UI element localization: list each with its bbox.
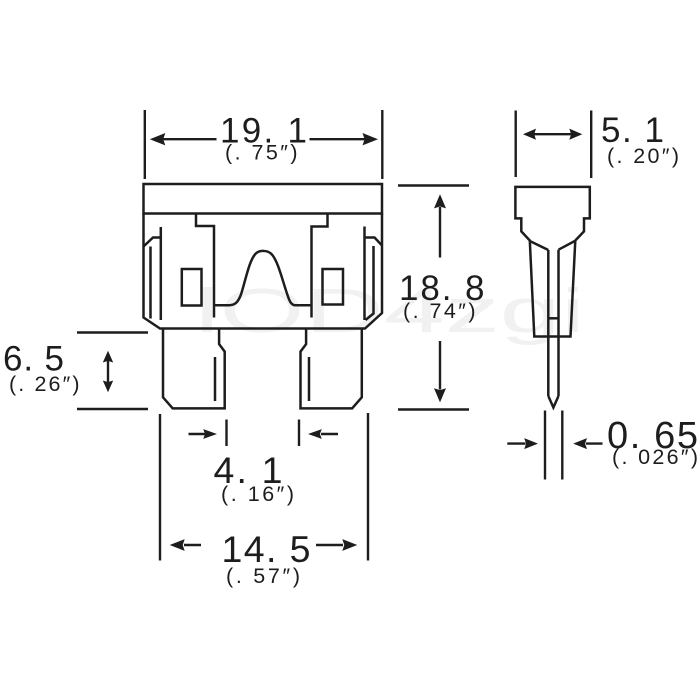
dim 18.8 down arrow shaft [439,341,441,390]
svg-text:(. 75″): (. 75″) [225,141,298,165]
fuse front view: right leg inner line [308,357,311,401]
dim 6.5 up arrowhead [103,351,113,363]
svg-text:(. 026″): (. 026″) [612,445,698,469]
dim 0.65 left-pointing arrowhead [573,438,587,449]
dim 0.65 right arrow shaft [586,442,603,444]
dim 0.65 right extension line [561,411,563,480]
side view: housing outline [515,187,589,337]
dim 4.1 left-pointing arrowhead [308,429,322,439]
fuse front view: right ear chamfer [365,238,383,246]
fuse front view: top cap [144,184,383,214]
dim 5.1 arrow shaft [534,133,571,135]
fuse front view: left ear inner slot line [149,247,152,319]
dim 6.5 down arrowhead [103,381,113,393]
dim 18.8 bottom extension line [398,408,469,410]
side view: blade right edge [557,250,560,396]
fuse front view: body outline [144,214,383,329]
dim 18.8 up arrow shaft [439,207,441,258]
dim 6.5 bottom extension line [77,408,148,410]
fuse front view: left leg inner line [214,357,217,401]
dim 6.5 arrow shaft [107,359,109,384]
side view: left funnel line [530,241,548,250]
dim 14.5 right extension line [367,413,369,561]
fuse front view: left ear chamfer [144,238,162,247]
dim 4.1 left arrow shaft [189,433,206,435]
svg-text:(. 26″): (. 26″) [9,372,80,396]
fuse element bell curve [214,251,312,305]
dim 19.1 left arrowhead [150,133,166,145]
dim 4.1 right-pointing arrowhead [203,429,217,439]
fuse front view: right window hole [323,269,344,305]
dim 19.1 right extension line [381,110,383,179]
side view: blade tick mark [548,317,558,320]
svg-text:(. 16″): (. 16″) [221,482,294,506]
dim 6.5 top extension line [77,331,148,333]
side view: right funnel line [559,241,575,250]
fuse front view: right blade leg [301,329,362,409]
svg-text:(. 20″): (. 20″) [607,144,679,168]
dim 4.1 right arrow shaft [321,433,338,435]
dim 4.1 left extension tick [225,420,227,447]
dim 18.8 top extension line [398,184,469,186]
fuse front view: left window hole [182,269,202,306]
dim 19.1 left arrow shaft [163,138,217,140]
dim 5.1 right arrowhead [569,129,582,140]
dim 18.8 up arrowhead [434,194,446,208]
dim 14.5 left-pointing arrowhead [170,539,185,551]
svg-text:lOD4zgi: lOD4zgi [195,277,585,346]
fuse front view: right ear inner slot line [366,246,374,320]
dim 5.1 left extension line [515,111,517,178]
dim 14.5 left arrow shaft [184,544,201,546]
svg-text:(. 57″): (. 57″) [226,564,300,588]
dim 0.65 right-pointing arrowhead [524,438,538,449]
dim 0.65 left arrow shaft [507,442,525,444]
dim 0.65 left extension line [544,411,546,480]
dim 14.5 right arrow shaft [316,544,343,546]
dim 19.1 right arrowhead [363,133,379,145]
dim 19.1 right arrow shaft [310,138,365,140]
dim 14.5 left extension line [159,414,161,561]
fuse front view: left blade leg [163,329,225,409]
fuse front view: left side wall line [160,227,163,320]
dim 14.5 right-pointing arrowhead [342,539,357,551]
dim 5.1 left arrowhead [523,129,536,140]
dim 19.1 left extension line [144,110,146,179]
fuse front view: window right step [312,214,328,318]
fuse front view: window left step [196,214,214,318]
side view: blade tip [548,396,558,408]
dim 5.1 right extension line [590,111,592,179]
fuse front view: right side wall line [363,227,366,321]
dim 4.1 right extension tick [298,420,300,447]
side view: blade left edge [547,250,550,396]
svg-text:(. 74″): (. 74″) [403,299,476,323]
watermark ghost text [195,277,585,346]
dim 18.8 down arrowhead [434,388,446,402]
